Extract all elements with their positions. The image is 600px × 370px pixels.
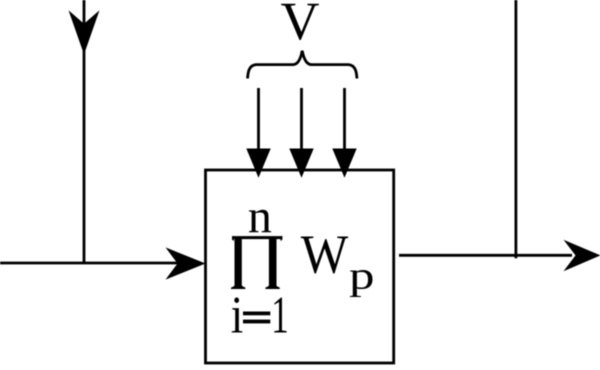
svg-text:i: i — [231, 287, 244, 345]
svg-text:p: p — [349, 255, 375, 298]
svg-text:V: V — [281, 0, 320, 51]
svg-text:1: 1 — [271, 287, 289, 345]
svg-text:n: n — [248, 190, 272, 243]
svg-text:W: W — [301, 224, 349, 285]
